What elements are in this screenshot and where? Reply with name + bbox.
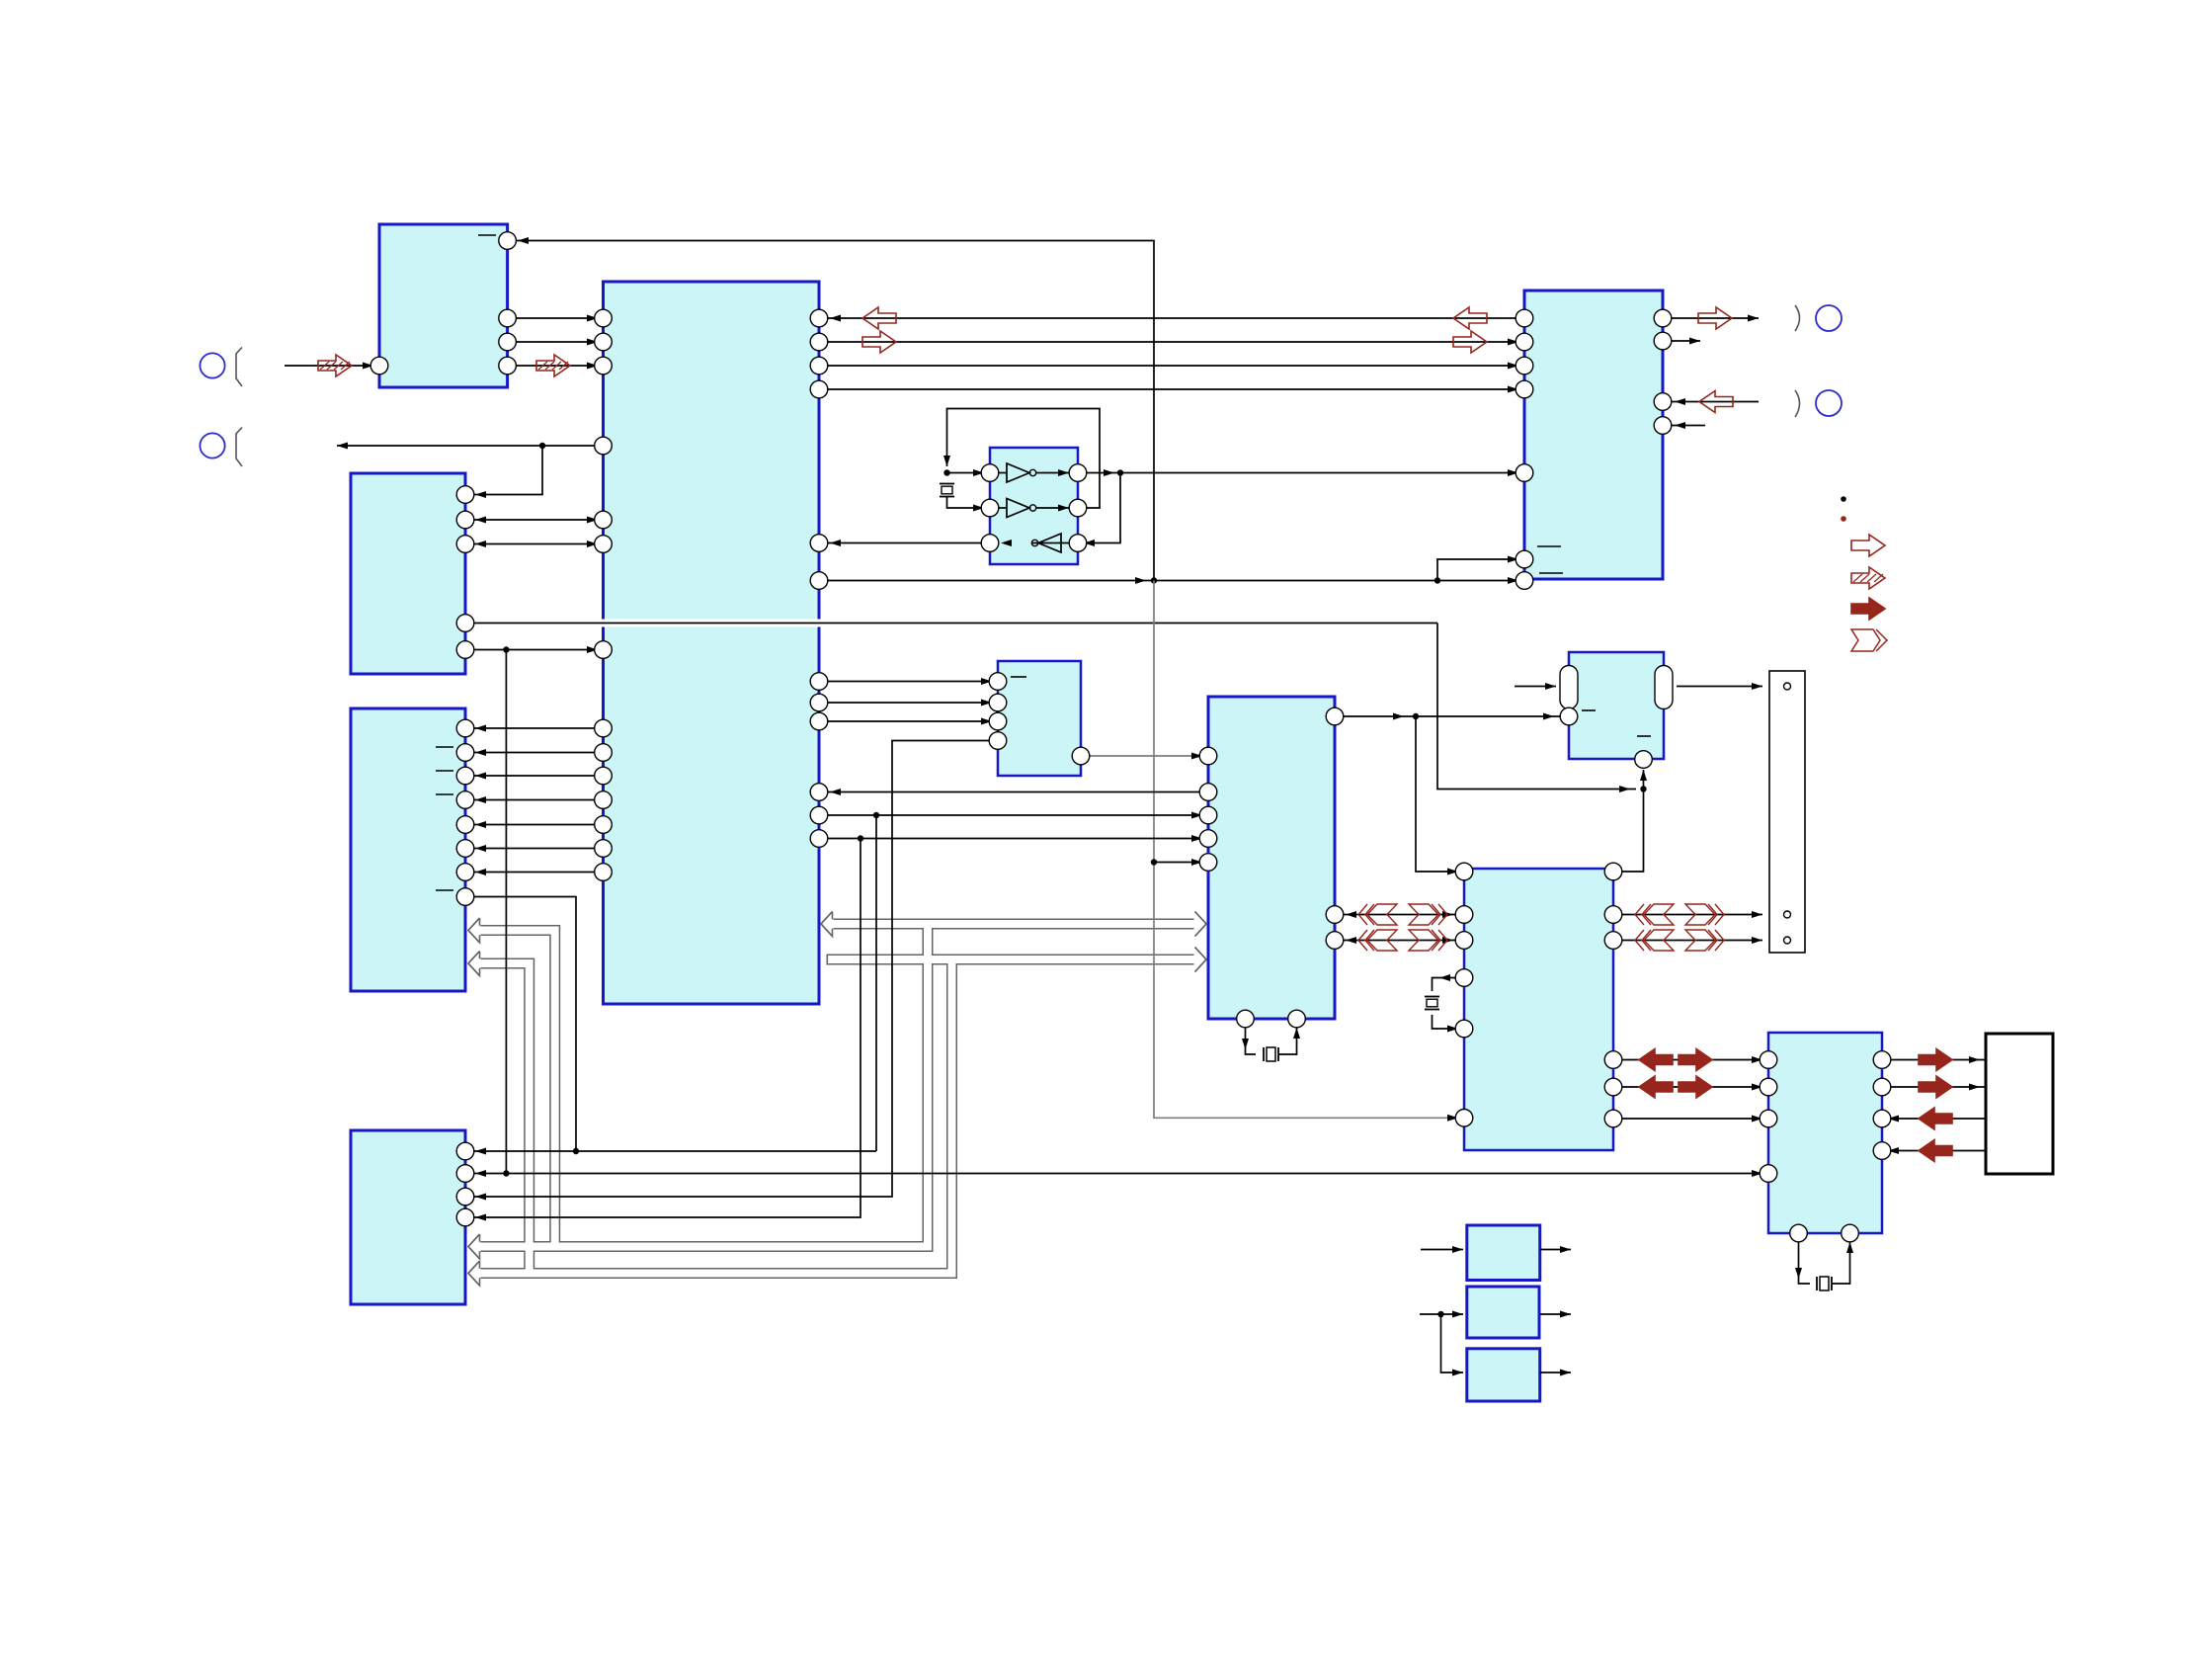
bus arrowhead bbox=[468, 1234, 481, 1259]
wire: U2 to U8 pins6-7 (net XIN) bbox=[819, 580, 1524, 582]
pin U2 left y=322 bbox=[595, 309, 613, 327]
wire: branch into U10 pin5 bbox=[1151, 859, 1157, 865]
buffer gate in U6 row1 bbox=[1007, 463, 1029, 482]
wire: U2 to U7 pin1 bbox=[819, 681, 998, 683]
wire: U1 top pin to long vertical (net RESET) bbox=[508, 241, 1154, 581]
wire: U3 pin2 - U2 (bidirectional) bbox=[465, 519, 604, 521]
pin U10 top-right bbox=[1326, 707, 1344, 725]
wire: long vertical gray from XIN junction down to U11 (net VID) bbox=[1154, 581, 1464, 1119]
pin U7 left y=730 bbox=[989, 712, 1007, 730]
wire: U2 left out to connector row (net OUT1) bbox=[337, 445, 604, 447]
pin U5 right y=1187.5 bbox=[456, 1165, 474, 1183]
wire: U2 to U4 row6 bbox=[465, 848, 604, 850]
pin U5 right y=1232 bbox=[456, 1208, 474, 1226]
wire: U1 to U2 row3 bbox=[508, 365, 604, 367]
wire: U9 right capsule to connector bar bbox=[1677, 686, 1762, 688]
wire: U12 to M1 row2 bbox=[1882, 1086, 1986, 1088]
solid arrows U11-U12 row1 bbox=[1639, 1049, 1673, 1071]
wire: U2 to U4 row1 bbox=[465, 727, 604, 729]
pin U2 right y=346 bbox=[810, 333, 828, 351]
pin U7 bottom-right bbox=[1072, 747, 1090, 765]
buffer gate in U6 row2 bbox=[1007, 499, 1029, 518]
pin U10 left y=848.5 bbox=[1199, 830, 1217, 848]
wire: U5 pin2 long net to U12 pin4 bbox=[465, 1173, 1768, 1175]
overline above U8 pin7 bbox=[1539, 572, 1563, 574]
pin U8 right y=322 bbox=[1654, 309, 1672, 327]
pin U2 right y=801.5 bbox=[810, 784, 828, 801]
pin U11 top-right bbox=[1604, 863, 1622, 880]
bus: to U10 second (square tail) core bbox=[827, 956, 1206, 963]
wire: crystal X1 top junction into U6 pin1 bbox=[947, 472, 991, 474]
bus arrowhead bbox=[468, 952, 481, 976]
bar pin 2 bbox=[1784, 911, 1791, 918]
crystal X4 bbox=[1816, 1277, 1818, 1290]
red arrow right near U8 on row2 bbox=[1453, 331, 1487, 353]
wire: U2 to U8 row1 bbox=[819, 317, 1524, 319]
pin U2 right y=549.5 bbox=[810, 535, 828, 552]
red arrow right at U8 pin1 out bbox=[1698, 307, 1732, 329]
pin U11 left y=989.5 bbox=[1455, 969, 1473, 987]
pin U12 right y=1132 bbox=[1873, 1110, 1891, 1127]
wire: crystal X1 bottom to U6 pin2 bbox=[947, 497, 991, 508]
IC block U4 (left lower) bbox=[351, 708, 465, 991]
wire: U8 right pin2 output bbox=[1663, 340, 1700, 342]
connector circle CN1 bbox=[1816, 305, 1842, 331]
connector bar CN3 (right) bbox=[1769, 671, 1805, 953]
IC block U10 (center bottom) bbox=[1208, 697, 1335, 1019]
pin U2 left y=550 bbox=[595, 536, 613, 553]
wire: U10-U11 bidirectional row y=951.5 bbox=[1335, 940, 1464, 942]
pin U4 right y=737 bbox=[456, 719, 474, 737]
overline above U4 pin8 bbox=[436, 889, 453, 891]
pin U1 left bbox=[370, 357, 388, 374]
wire: U12 to M1 row1 bbox=[1882, 1059, 1986, 1061]
wire U6 row2 internal bbox=[999, 507, 1007, 509]
wire: U4 pin8 right then down to U5 pin1 net bbox=[465, 897, 576, 1152]
pin U2 right y=711 bbox=[810, 694, 828, 711]
wire: U11 pin to crystal X2 bbox=[1433, 978, 1465, 992]
chevron bus marker U11-CN3 y=925.5 bbox=[1642, 904, 1651, 925]
overline above U4 pin4 bbox=[436, 793, 453, 795]
solid arrow U12-M1 row2 bbox=[1919, 1076, 1952, 1098]
wire: branch up into U9 bottom pin bbox=[1643, 770, 1645, 790]
bus arrowhead bbox=[468, 918, 481, 943]
wire: branch down to U11 top-right pin bbox=[1613, 790, 1644, 873]
wire: U10-U11 bidirectional row y=925.5 bbox=[1335, 914, 1464, 916]
wire: U11-U12 row3 bbox=[1613, 1118, 1768, 1120]
chevron bus marker U10-U11 y=925.5 bbox=[1365, 904, 1374, 925]
IC block U11 (bottom right large) bbox=[1464, 869, 1613, 1150]
pin U12 right y=1100 bbox=[1873, 1078, 1891, 1096]
pin U11 right y=925.5 bbox=[1604, 906, 1622, 924]
legend hatched arrow bbox=[1851, 567, 1885, 589]
pin U10 bottom2 bbox=[1288, 1010, 1306, 1028]
pin U10 left y=765 bbox=[1199, 747, 1217, 765]
bus arrowhead bbox=[1194, 948, 1207, 972]
pin U2 left y=785 bbox=[595, 767, 613, 785]
wire: U1 to U2 row1 bbox=[508, 317, 604, 319]
black box (display) M1 bbox=[1986, 1034, 2053, 1174]
wire: U2 to U4 row5 bbox=[465, 824, 604, 826]
IC block U7 (small mid) bbox=[998, 661, 1081, 776]
wire: U8 right pin1 output bbox=[1663, 317, 1759, 319]
crystal X3 bbox=[1263, 1047, 1265, 1061]
overline above U4 pin3 bbox=[436, 770, 453, 772]
wire: U12 bottom pin1 down bbox=[1799, 1233, 1811, 1284]
pin U11 right y=1132 bbox=[1604, 1110, 1622, 1127]
wire: U10 top pin to U9 bottom-left pin with branch to U11 bbox=[1335, 715, 1560, 717]
overline label above U1 top pin bbox=[478, 234, 496, 236]
pin U2 right y=322 bbox=[810, 309, 828, 327]
pin U1 right y=322 bbox=[499, 309, 517, 327]
pin U2 left y=657 bbox=[595, 641, 613, 659]
pin U4 right y=907.5 bbox=[456, 888, 474, 906]
legend chevron arrow bbox=[1851, 629, 1880, 651]
pin U3 right y=657.5 bbox=[456, 641, 474, 659]
pin U10 bottom1 bbox=[1237, 1010, 1255, 1028]
pin U8 right y=406.5 bbox=[1654, 393, 1672, 411]
pin U12 left y=1187.5 bbox=[1760, 1165, 1777, 1183]
pin U8 left y=587.5 bbox=[1516, 572, 1533, 590]
IC block U1 (top-left) bbox=[379, 224, 508, 387]
pin U10 left y=872.5 bbox=[1199, 854, 1217, 872]
pin U6 right y=549.5 bbox=[1069, 535, 1087, 552]
connector circle CN5 (left lower) bbox=[200, 433, 224, 458]
pin U2 left y=882.5 bbox=[595, 864, 613, 881]
wire: input to U14 with branch to U15 bbox=[1420, 1313, 1463, 1315]
wire: U10 to U2 (row 801.5) bbox=[819, 791, 1208, 793]
bar pin 1 bbox=[1784, 683, 1791, 690]
pin U2 right y=848.5 bbox=[810, 830, 828, 848]
wire: U3 pin5 to U2 with branch down (net SYS) bbox=[465, 649, 604, 651]
pin U2 left y=737 bbox=[595, 719, 613, 737]
wire: input to U1 left pin bbox=[285, 365, 373, 367]
bus: U4 arrow1 elbow down core bbox=[468, 931, 555, 1247]
overline above U7 pin1 bbox=[1011, 676, 1026, 678]
chevron bus marker U10-U11 y=951.5 bbox=[1365, 930, 1374, 951]
wire: U2 to U4 row4 bbox=[465, 799, 604, 801]
wire: U2 to U7 pin2 bbox=[819, 702, 998, 704]
pin U9 bottom bbox=[1635, 751, 1653, 769]
legend outline arrow bbox=[1851, 535, 1885, 556]
pin U11 left y=1131.3 bbox=[1455, 1110, 1473, 1127]
overline above U8 pin6 bbox=[1537, 545, 1561, 547]
wire: U6 feedback loop top bbox=[947, 409, 1101, 509]
solid arrow M1-U12 row3 bbox=[1919, 1108, 1952, 1129]
pin U3 right y=550.5 bbox=[456, 536, 474, 553]
oscillator module U6 bbox=[990, 448, 1078, 564]
pin U8 left y=566 bbox=[1516, 550, 1533, 568]
red arrow left near U2 on row1 bbox=[862, 307, 896, 329]
wire: U15 output bbox=[1540, 1372, 1571, 1373]
pin U9 left lower bbox=[1560, 707, 1578, 725]
wire: U11-U12 row1 bbox=[1613, 1059, 1768, 1061]
connector mark CN1 bracket bbox=[1795, 305, 1800, 331]
pin U3 right y=526 bbox=[456, 511, 474, 529]
IC block U9 (right mid small) bbox=[1569, 652, 1664, 759]
pin U11 top-left bbox=[1455, 863, 1473, 880]
bus arrowhead bbox=[1194, 912, 1207, 937]
pin U8 left y=370 bbox=[1516, 357, 1533, 374]
wire: into U8 right pin3 bbox=[1663, 401, 1759, 403]
pin U12 bottom2 bbox=[1842, 1224, 1859, 1242]
pin U1 top bbox=[499, 232, 517, 250]
wire U6 row1 internal bbox=[999, 472, 1007, 474]
pin U6 left y=514 bbox=[981, 499, 999, 517]
pin U2 right y=730 bbox=[810, 712, 828, 730]
wire: U7 pin4 left and down to U5 pin3 bbox=[465, 741, 998, 1198]
wire: U5 pin1 net from verticals bbox=[576, 1150, 876, 1152]
pin U4 right y=834.5 bbox=[456, 816, 474, 834]
hatched arrow on U1-U2 row3 bbox=[536, 355, 570, 376]
wire: crystal X4 to U12 bottom pin2 bbox=[1832, 1233, 1850, 1284]
bus: U4 arrow1 elbow down bbox=[468, 931, 555, 1247]
bus: U2-U10 bidirectional main bbox=[821, 919, 1206, 930]
legend maroon dot bbox=[1841, 516, 1846, 522]
pin U2 left y=526 bbox=[595, 511, 613, 529]
pin U1 right y=346 bbox=[499, 333, 517, 351]
pin U10 left y=825 bbox=[1199, 806, 1217, 824]
IC block U2 (large center) bbox=[604, 282, 820, 1004]
overline at U9 bottom-right pin bbox=[1637, 735, 1651, 737]
pin U11 right y=1100 bbox=[1604, 1078, 1622, 1096]
pin U10 left y=801.5 bbox=[1199, 784, 1217, 801]
pin U7 left y=711 bbox=[989, 694, 1007, 711]
overline above U4 pin2 bbox=[436, 746, 453, 748]
solid arrows U11-U12 row2 bbox=[1639, 1076, 1673, 1098]
wire: U3 pin4 long haloed wire to right then down to U9/U11 bbox=[465, 620, 1437, 627]
pin U2 left y=761.5 bbox=[595, 744, 613, 762]
wire: input to U13 bbox=[1421, 1249, 1463, 1251]
pin U12 left y=1132 bbox=[1760, 1110, 1777, 1127]
crystal X2 bbox=[1425, 996, 1439, 998]
pin U8 right y=345 bbox=[1654, 332, 1672, 350]
red arrow right near U2 on row2 bbox=[862, 331, 896, 353]
pin U8 right y=430.5 bbox=[1654, 417, 1672, 435]
pin U2 left y=858.5 bbox=[595, 840, 613, 858]
wire: U11-U12 row2 bbox=[1613, 1086, 1768, 1088]
bus arrowhead bbox=[468, 1261, 481, 1286]
pin U8 left y=394 bbox=[1516, 380, 1533, 398]
bus: U4 arrow2 elbow down core bbox=[468, 963, 530, 1274]
pin U12 left y=1072.5 bbox=[1760, 1051, 1777, 1069]
wire: U7 bottom-right pin to U10 pin1 (gray) bbox=[1081, 755, 1208, 757]
pin U6 right y=514 bbox=[1069, 499, 1087, 517]
pin U7 left y=749.5 bbox=[989, 732, 1007, 750]
pin U3 right y=630.5 bbox=[456, 615, 474, 632]
pin U6 right y=478.5 bbox=[1069, 464, 1087, 482]
capsule pin on U9 top-right bbox=[1655, 666, 1673, 709]
pin U2 left y=834.5 bbox=[595, 816, 613, 834]
bus: to U10 second (square tail) bbox=[827, 955, 1206, 965]
pin U2 left y=451 bbox=[595, 437, 613, 455]
wire: U3 pin3 - U2 (bidirectional) bbox=[465, 543, 604, 545]
wire: clock return branch down into U6 pin6 bbox=[1078, 473, 1120, 543]
bracket for CN4 bbox=[236, 348, 242, 387]
wire: U2 to U10 (row 825) with branch down to U5 bbox=[819, 814, 1208, 816]
pin U11 left y=925.5 bbox=[1455, 906, 1473, 924]
wire U6 row3 internal bbox=[1031, 542, 1069, 544]
bus: U2-U10 bidirectional main core bbox=[821, 920, 1206, 928]
wire: U2 to U4 row7 bbox=[465, 872, 604, 874]
pin U4 right y=882.5 bbox=[456, 864, 474, 881]
hatched arrow on U1 input bbox=[318, 355, 352, 376]
wire: vertical from SYS junction down to U5 row2 net bbox=[505, 650, 507, 1174]
pin U11 left y=1041 bbox=[1455, 1020, 1473, 1038]
wire: U14 output bbox=[1540, 1313, 1571, 1315]
wire: U10 bottom pin1 down bbox=[1246, 1019, 1257, 1054]
pin U11 right y=1072.5 bbox=[1604, 1051, 1622, 1069]
bracket for CN5 bbox=[236, 428, 242, 467]
wire: U6 row1 output to U8 pin5 (net CLK) bbox=[1078, 472, 1524, 474]
wire: U13 output bbox=[1540, 1249, 1571, 1251]
pin U10 right y=925.5 bbox=[1326, 906, 1344, 924]
pin U4 right y=809.5 bbox=[456, 791, 474, 809]
wire: crystal X2 to U11 lower pin bbox=[1433, 1015, 1465, 1029]
bus: tee from main bus down to U5 arrow1 core bbox=[468, 924, 928, 1247]
pin U8 left y=478.5 bbox=[1516, 464, 1533, 482]
wire: crystal X3 to U10 bottom pin2 bbox=[1278, 1019, 1297, 1054]
capsule pin on U9 top-left bbox=[1560, 666, 1578, 709]
overline at U9 bottom-left pin bbox=[1582, 709, 1596, 711]
pin U2 left y=346 bbox=[595, 333, 613, 351]
bus: tee from main bus down to U5 arrow1 bbox=[468, 924, 928, 1247]
bus arrowhead bbox=[821, 912, 834, 937]
pin U6 left y=478.5 bbox=[981, 464, 999, 482]
bar pin 3 bbox=[1784, 937, 1791, 944]
pin U8 left y=346 bbox=[1516, 333, 1533, 351]
bus: tee from second bus down to U5 arrow2 bbox=[468, 959, 952, 1274]
pin U11 left y=951.5 bbox=[1455, 932, 1473, 950]
IC block U8 (top right) bbox=[1524, 291, 1663, 579]
IC block U5 (left bottom) bbox=[351, 1130, 465, 1304]
pin U4 right y=785 bbox=[456, 767, 474, 785]
wire: U6 pin4 to U2 (osc out) bbox=[819, 542, 990, 544]
IC block U3 (left mid) bbox=[351, 473, 465, 674]
pin U2 right y=587.5 bbox=[810, 572, 828, 590]
small block U14 bbox=[1467, 1287, 1539, 1338]
pin U10 right y=951.5 bbox=[1326, 932, 1344, 950]
wire: U2 to U8 row2 bbox=[819, 341, 1524, 343]
connector mark CN2 bracket bbox=[1795, 390, 1800, 417]
wire: U11 to connector bar row y=925.5 bbox=[1613, 914, 1762, 916]
crystal X1 bbox=[940, 483, 954, 485]
wire: M1 to U12 row3 bbox=[1882, 1118, 1986, 1120]
pin U5 right y=1165 bbox=[456, 1142, 474, 1160]
connector circle CN2 bbox=[1816, 390, 1842, 416]
pin U12 left y=1100 bbox=[1760, 1078, 1777, 1096]
pin U5 right y=1211 bbox=[456, 1188, 474, 1206]
legend solid arrow bbox=[1851, 598, 1885, 620]
small block U15 bbox=[1467, 1349, 1540, 1401]
pin U8 left y=322 bbox=[1516, 309, 1533, 327]
pin U2 left y=809.5 bbox=[595, 791, 613, 809]
wire: U2 to U8 row4 bbox=[819, 388, 1524, 390]
pin U12 right y=1164.5 bbox=[1873, 1142, 1891, 1160]
solid arrow U12-M1 row1 bbox=[1919, 1049, 1952, 1071]
pin U11 right y=951.5 bbox=[1604, 932, 1622, 950]
connector circle CN4 (left top) bbox=[200, 353, 224, 377]
pin U1 right y=370 bbox=[499, 357, 517, 374]
bus: U4 arrow2 elbow down bbox=[468, 963, 530, 1274]
pin U2 right y=825 bbox=[810, 806, 828, 824]
pin U4 right y=761.5 bbox=[456, 744, 474, 762]
bus: tee from second bus down to U5 arrow2 core bbox=[468, 959, 952, 1274]
small block U13 bbox=[1467, 1225, 1540, 1281]
wire: U2 to U4 row3 bbox=[465, 775, 604, 777]
pin U2 right y=689.5 bbox=[810, 673, 828, 691]
legend black dot bbox=[1841, 496, 1846, 502]
pin U2 left y=370 bbox=[595, 357, 613, 374]
wire: into U9 left capsule bbox=[1515, 686, 1556, 688]
IC block U12 (bottom right) bbox=[1768, 1033, 1882, 1233]
pin U2 right y=394 bbox=[810, 380, 828, 398]
pin U3 right y=500.5 bbox=[456, 486, 474, 504]
wire: U2 to U4 row2 bbox=[465, 752, 604, 754]
wire: U2 to U8 row3 bbox=[819, 365, 1524, 367]
wire: U2 to U7 pin3 bbox=[819, 720, 998, 722]
wire: U1 to U2 row2 bbox=[508, 341, 604, 343]
red arrow left at U8 pin3 in bbox=[1699, 391, 1733, 413]
red arrow left near U8 on row1 bbox=[1453, 307, 1487, 329]
wire: branch down to U3 pin1 bbox=[465, 446, 542, 495]
chevron bus marker U11-CN3 y=951.5 bbox=[1642, 930, 1651, 951]
pin U12 bottom1 bbox=[1790, 1224, 1808, 1242]
pin U12 right y=1072.5 bbox=[1873, 1051, 1891, 1069]
wire: M1 to U12 row4 bbox=[1882, 1150, 1986, 1152]
square tail of second bus bbox=[826, 955, 828, 965]
wire: U2 to U10 (row 848.5) with branch down bbox=[819, 838, 1208, 840]
inverter gate in U6 row3 (pointing left) bbox=[1038, 534, 1061, 552]
wire: into U8 right pin4 bbox=[1663, 425, 1705, 427]
pin U2 right y=370 bbox=[810, 357, 828, 374]
solid arrow M1-U12 row4 bbox=[1919, 1140, 1952, 1162]
pin U4 right y=858.5 bbox=[456, 840, 474, 858]
pin U7 left y=689.5 bbox=[989, 673, 1007, 691]
pin U6 left y=549.5 bbox=[981, 535, 999, 552]
wire: branch to U8 pin6 bbox=[1437, 559, 1524, 581]
wire: U11 to connector bar row y=951.5 bbox=[1613, 940, 1762, 942]
